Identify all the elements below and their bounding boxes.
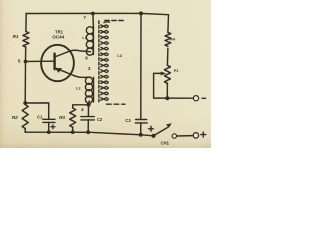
transistor TR1 collector lead bbox=[55, 50, 91, 57]
svg-text:CH1: CH1 bbox=[161, 140, 170, 145]
svg-text:R2: R2 bbox=[12, 115, 18, 120]
transistor TR1 body bbox=[41, 45, 74, 81]
terminal minus sign bbox=[202, 97, 206, 99]
wire pin7 stub from top rail bbox=[92, 14, 95, 28]
wire left rail upper bbox=[25, 14, 27, 32]
C1 polarity plus bbox=[51, 125, 55, 129]
transformer core (dashed) bbox=[98, 21, 100, 103]
node 5 (base junction) bbox=[24, 60, 28, 64]
svg-text:R3: R3 bbox=[59, 115, 65, 120]
terminal plus sign bbox=[201, 132, 206, 137]
capacitor C2 bbox=[87, 105, 89, 117]
wire R2 to bottom rail bbox=[24, 129, 26, 133]
wire C1 branch from base node bbox=[25, 103, 49, 119]
wire output minus lead bbox=[154, 97, 194, 99]
wire P1 bottom bbox=[166, 83, 168, 98]
svg-text:5: 5 bbox=[18, 58, 21, 64]
terminal plus bbox=[193, 133, 198, 138]
svg-text:7: 7 bbox=[83, 15, 86, 20]
svg-text:3: 3 bbox=[88, 66, 91, 71]
wire R3 to rail bbox=[72, 127, 74, 132]
node pin4 junction bbox=[87, 103, 91, 107]
svg-text:L1: L1 bbox=[82, 36, 86, 40]
C3 polarity plus bbox=[149, 126, 154, 131]
wire battery branch vertical bbox=[140, 13, 142, 119]
node C1 bottom bbox=[47, 130, 51, 134]
inductor L3 (secondary winding) bbox=[101, 22, 110, 101]
svg-text:C3: C3 bbox=[125, 118, 131, 123]
inductor L1 bbox=[92, 27, 94, 55]
wire top rail bbox=[26, 13, 168, 14]
wire bottom rail bbox=[25, 132, 153, 136]
inductor L2 bbox=[93, 77, 95, 102]
node P1 bottom junction bbox=[165, 96, 169, 100]
svg-text:4: 4 bbox=[81, 107, 84, 112]
transistor TR1 emitter lead with arrow bbox=[57, 68, 91, 77]
wire R4 to P1 bbox=[166, 48, 169, 65]
capacitor C3 bbox=[136, 119, 147, 121]
potentiometer P1 bbox=[164, 65, 170, 83]
resistor R3 bbox=[70, 108, 76, 127]
svg-text:C2: C2 bbox=[97, 117, 103, 122]
transistor TR1 base bar bbox=[53, 54, 55, 70]
svg-text:P1: P1 bbox=[174, 69, 179, 73]
resistor R2 bbox=[22, 105, 28, 129]
node C3 bottom bbox=[139, 133, 143, 137]
node base bias / R2 top bbox=[23, 101, 27, 105]
node C2 bottom bbox=[86, 130, 90, 134]
wire to plus terminal bbox=[177, 135, 193, 137]
resistor R4 bbox=[165, 32, 171, 46]
wire base lead bbox=[26, 60, 55, 62]
node pin7 on top rail bbox=[91, 12, 95, 16]
node battery branch on top rail bbox=[139, 11, 143, 15]
terminal minus bbox=[193, 96, 198, 101]
potentiometer P1 wiper arrow bbox=[154, 72, 162, 74]
wire left rail lower bbox=[24, 62, 26, 105]
resistor R1 bbox=[23, 32, 29, 48]
switch CH1 bbox=[151, 134, 155, 138]
node R3 bottom bbox=[71, 130, 75, 134]
wire wiper down bbox=[153, 73, 155, 98]
svg-text:C1: C1 bbox=[37, 115, 43, 120]
wire right branch top bbox=[167, 15, 170, 33]
wire left rail to base node bbox=[25, 47, 27, 61]
svg-text:L2: L2 bbox=[76, 87, 80, 91]
svg-text:OC44: OC44 bbox=[52, 35, 64, 40]
svg-text:6: 6 bbox=[85, 56, 88, 61]
svg-text:L3: L3 bbox=[117, 54, 121, 58]
capacitor C1 bbox=[43, 118, 55, 120]
svg-text:R1: R1 bbox=[13, 34, 19, 39]
wire pin4 stub bbox=[88, 101, 91, 105]
wire emitter/R3 bias network bbox=[73, 105, 89, 108]
